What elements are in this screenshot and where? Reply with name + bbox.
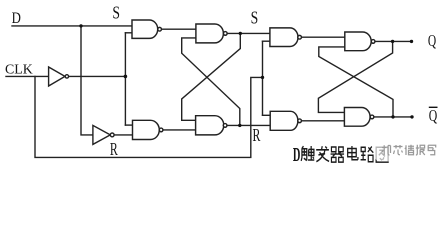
- svg-text:R: R: [110, 139, 118, 159]
- svg-text:S: S: [112, 2, 120, 22]
- svg-text:Q: Q: [429, 106, 438, 125]
- svg-text:D: D: [293, 144, 301, 166]
- svg-text:CLK: CLK: [5, 63, 33, 78]
- svg-text:Q: Q: [428, 31, 436, 50]
- svg-text:D: D: [12, 10, 21, 27]
- svg-text:R: R: [253, 125, 261, 145]
- svg-text:S: S: [251, 8, 259, 28]
